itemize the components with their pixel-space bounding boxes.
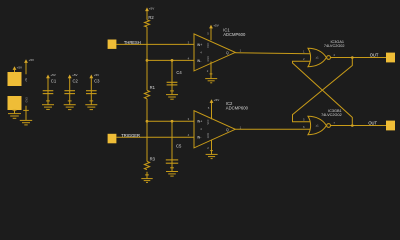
wire node to C5	[171, 121, 173, 171]
power +5V symbol above R2	[145, 6, 154, 19]
resistor R3	[144, 156, 155, 169]
capacitor C2	[64, 78, 78, 93]
wire TRIGGER to U2 IN-	[116, 136, 194, 138]
ground under J2	[8, 110, 21, 118]
svg-text:+5V: +5V	[213, 24, 218, 28]
ground net stub symbol	[20, 97, 32, 125]
svg-text:74LVC2G02: 74LVC2G02	[324, 44, 345, 48]
power +5V symbol above C2	[68, 73, 78, 78]
feedback wire IC3B output to IC3A input	[293, 61, 353, 125]
junction on IC3B output	[351, 124, 354, 127]
wire IC3B output to OUT pad	[331, 125, 387, 127]
svg-text:+5V: +5V	[214, 98, 219, 102]
svg-text:ADCMP600: ADCMP600	[223, 32, 246, 37]
resistor R1	[144, 85, 155, 99]
svg-text:≥1: ≥1	[316, 56, 320, 60]
ground under C3	[85, 101, 97, 110]
wire node B to R3	[146, 121, 148, 161]
ground under C1	[42, 101, 54, 110]
ground under IC2	[206, 154, 218, 158]
svg-text:OUT: OUT	[370, 52, 379, 57]
port THRESH pad	[108, 40, 117, 49]
svg-text:C2: C2	[73, 78, 79, 83]
NOR gate IC3B bubble	[327, 124, 331, 128]
op-amp comparator IC2 body	[194, 111, 235, 148]
capacitor C3	[86, 78, 100, 93]
wire node A to R1	[146, 60, 148, 90]
node B junction	[146, 120, 149, 123]
ground under C2	[64, 101, 76, 110]
svg-text:C5: C5	[176, 143, 182, 148]
svg-text:ADCMP600: ADCMP600	[226, 106, 249, 111]
svg-text:Q: Q	[226, 128, 229, 132]
svg-text:TRIGGER: TRIGGER	[121, 133, 140, 138]
ground under IC1	[205, 79, 217, 83]
port OUT2 pad	[386, 121, 395, 131]
wire node to C4	[171, 60, 173, 94]
svg-text:IN-: IN-	[197, 136, 203, 140]
power +5V symbol above J1 pad	[13, 65, 22, 72]
svg-text:VCC: VCC	[207, 42, 210, 47]
svg-text:IN+: IN+	[197, 43, 203, 47]
svg-text:C4: C4	[176, 70, 182, 75]
svg-text:+5V: +5V	[25, 77, 28, 82]
capacitor C1	[43, 78, 57, 93]
power +5V symbol above C1	[46, 73, 56, 78]
svg-text:C1: C1	[51, 78, 57, 83]
capacitor C5	[166, 143, 182, 163]
svg-text:IN+: IN+	[197, 120, 203, 124]
svg-text:GND: GND	[26, 97, 29, 103]
wire +5V to C3 and C3 to ground	[90, 78, 92, 105]
pad J1 (+5V input pad)	[8, 72, 22, 86]
svg-text:GND: GND	[207, 56, 210, 62]
svg-text:+5V: +5V	[17, 65, 22, 69]
power +5V symbol (net stub column)	[24, 58, 34, 82]
svg-text:R2: R2	[148, 15, 154, 20]
IC1 VCC pin wire and +5V arrow	[209, 24, 219, 41]
wire node B to U2 IN+	[147, 120, 194, 122]
port TRIGGER pad	[108, 134, 117, 144]
svg-text:THRESH: THRESH	[124, 40, 141, 45]
wire THRESH to U1 IN+	[116, 43, 194, 45]
node C4 junction	[171, 59, 174, 62]
svg-text:Q: Q	[226, 51, 229, 55]
IC2 VCC pin wire and +5V arrow	[210, 98, 220, 119]
svg-text:R3: R3	[150, 156, 156, 161]
ground under C5	[166, 168, 178, 176]
wire R2 to ref node A	[146, 27, 148, 60]
svg-text:IN-: IN-	[197, 59, 203, 63]
wire IC3A output to OUT pad	[331, 57, 387, 59]
svg-text:+5V: +5V	[29, 58, 34, 62]
svg-text:R1: R1	[150, 85, 156, 90]
svg-text:GND: GND	[207, 133, 210, 139]
NOR gate IC3B body	[308, 116, 326, 134]
resistor R2	[145, 15, 155, 27]
svg-text:+5V: +5V	[149, 6, 154, 10]
wire +5V to C2 and C2 to ground	[69, 78, 71, 105]
svg-text:OUT: OUT	[368, 120, 377, 125]
svg-text:74LVC2G02: 74LVC2G02	[321, 113, 342, 117]
ground under C4	[166, 91, 178, 99]
IC2 GND pin wire	[211, 140, 213, 155]
port OUT pad	[386, 53, 395, 63]
wire IC2 output to NOR gate B input 2	[235, 128, 310, 130]
power +5V symbol above C3	[89, 73, 99, 78]
op-amp comparator IC1 body	[194, 34, 235, 71]
wire R1 to ref node B	[146, 99, 148, 122]
svg-text:≥1: ≥1	[316, 124, 320, 128]
svg-text:+5V: +5V	[94, 73, 99, 77]
node A junction	[146, 59, 149, 62]
feedback wire IC3A output to IC3B input	[293, 58, 353, 122]
ground under R3	[141, 175, 152, 183]
wire IC1 output to NOR gate A input 1	[235, 53, 310, 54]
wire +5V to C1 and C1 to ground	[47, 78, 49, 105]
svg-text:+5V: +5V	[50, 73, 55, 77]
IC1 gnd pin tick	[210, 73, 213, 75]
wire node A to U1 IN-	[147, 59, 194, 61]
svg-text:+5V: +5V	[72, 73, 77, 77]
junction on IC3A output	[351, 56, 354, 59]
node C5 junction	[171, 120, 174, 123]
IC2 gnd pin tick	[210, 150, 213, 152]
NOR gate IC3A bubble	[327, 56, 331, 60]
svg-text:VCC: VCC	[207, 119, 210, 124]
wire R3 to ground	[146, 172, 148, 179]
pad J2 (GND input pad)	[8, 96, 22, 110]
svg-text:C3: C3	[94, 78, 100, 83]
capacitor C4	[167, 70, 183, 85]
IC1 GND pin wire	[210, 62, 212, 79]
NOR gate IC3A body	[308, 48, 326, 66]
